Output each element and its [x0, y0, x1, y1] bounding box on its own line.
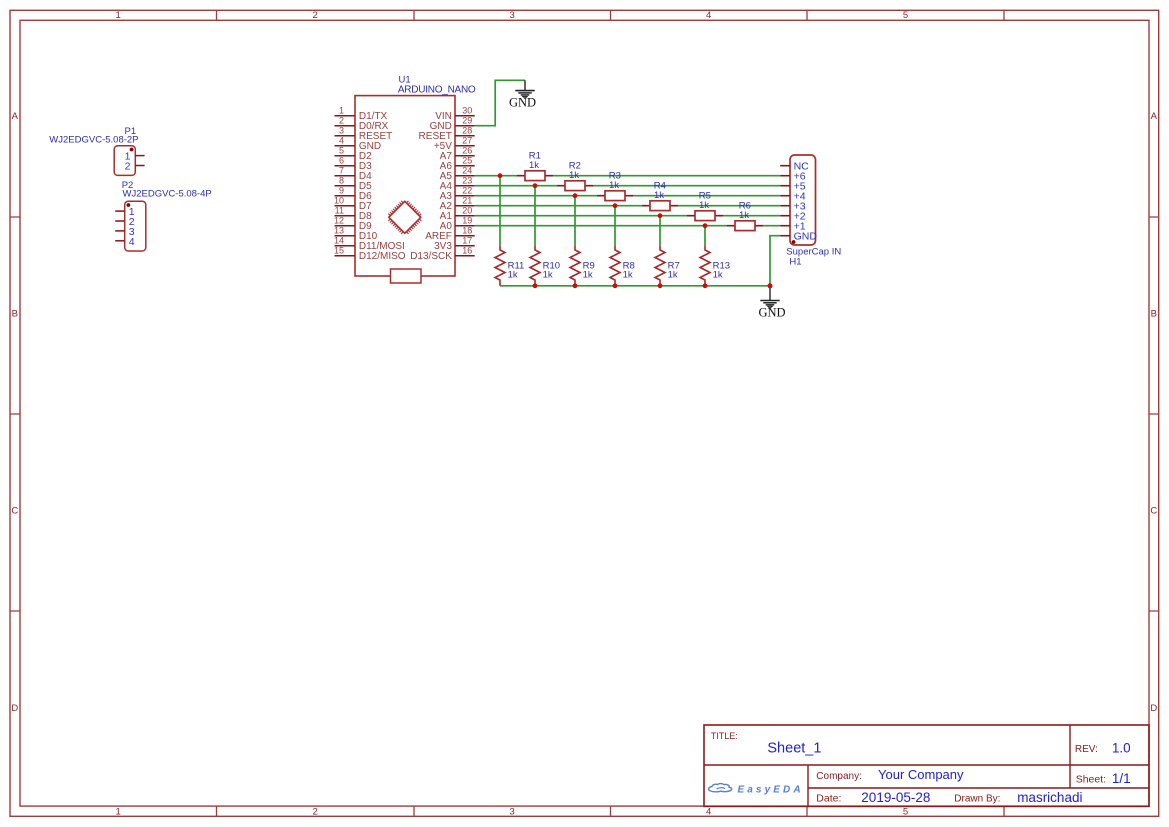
connector H1 pin +1 stub [780, 225, 790, 227]
wire bottom ground bus [500, 285, 770, 287]
svg-text:REV:: REV: [1075, 744, 1098, 755]
wire vertical branch at x=660 down to resistor [659, 216, 661, 246]
svg-text:14: 14 [334, 236, 344, 246]
svg-text:masrichadi: masrichadi [1017, 790, 1082, 805]
junction dot on ground bus at R8 [613, 283, 618, 288]
U1 pin 11 (D8) stub [335, 215, 356, 217]
svg-text:B: B [12, 309, 18, 320]
U1 pin 20 (A1) stub [455, 215, 475, 217]
resistor R4 body [650, 201, 670, 211]
svg-text:1: 1 [339, 106, 344, 116]
wire from R1 to H1 pin [553, 175, 780, 177]
U1 pin 3 (RESET) stub [335, 135, 356, 137]
connector P2 pin-1 marker dot [126, 203, 130, 207]
svg-text:Drawn By:: Drawn By: [954, 794, 1000, 805]
resistor R7 (vertical zigzag) [655, 246, 665, 286]
wire net A5 from U1 pin 24 to resistor R1 [475, 175, 517, 177]
svg-text:13: 13 [334, 226, 344, 236]
svg-text:2019-05-28: 2019-05-28 [861, 790, 930, 805]
svg-text:10: 10 [334, 196, 344, 206]
wire net A4 from U1 pin 23 to resistor R2 [475, 185, 557, 187]
wire vertical branch at x=615 down to resistor [614, 206, 616, 246]
title block row divider under Company [808, 787, 1149, 789]
junction dot on ground bus at R7 [658, 283, 663, 288]
svg-text:11: 11 [335, 206, 344, 216]
svg-text:15: 15 [334, 246, 344, 256]
svg-text:EasyEDA: EasyEDA [738, 784, 804, 795]
connector P2 pin 1 stub [115, 210, 125, 212]
resistor R6 body [735, 221, 755, 231]
wire from R2 to H1 pin [593, 185, 780, 187]
U1 pin 28 (RESET) stub [455, 135, 475, 137]
svg-text:19: 19 [462, 216, 472, 226]
U1 pin 26 (A7) stub [455, 155, 475, 157]
svg-text:1: 1 [116, 806, 121, 817]
svg-text:H1: H1 [789, 256, 801, 267]
U1 pin 10 (D7) stub [335, 205, 356, 207]
connector P1 pin 2 stub [135, 165, 144, 167]
junction dot on ground bus at R9 [573, 283, 578, 288]
resistor R5 leads [687, 215, 723, 217]
U1 pin 18 (AREF) stub [455, 235, 475, 237]
connector P2 pin 4 stub [115, 240, 125, 242]
connector H1 pin +6 stub [780, 175, 790, 177]
wire from H1 GND pin to ground bus [770, 236, 780, 286]
svg-text:4: 4 [129, 236, 135, 248]
svg-text:2: 2 [339, 116, 344, 126]
U1 pin 9 (D6) stub [335, 195, 356, 197]
U1 pin 6 (D3) stub [335, 165, 356, 167]
wire vertical branch at x=500 down to resistor [499, 176, 501, 246]
svg-text:8: 8 [339, 176, 344, 186]
svg-text:A: A [1151, 111, 1158, 122]
svg-text:28: 28 [462, 126, 472, 136]
svg-text:3: 3 [510, 806, 515, 817]
U1 pin 1 (D1/TX) stub [335, 115, 356, 117]
connector H1 pin-1 marker dot [792, 240, 796, 244]
U1 pin 23 (A4) stub [455, 185, 475, 187]
svg-text:1k: 1k [623, 270, 633, 281]
U1 body [355, 96, 455, 276]
junction dot on ground bus at R10 [533, 283, 538, 288]
svg-text:4: 4 [339, 136, 344, 146]
wire net A0 from U1 pin 19 to resistor R6 [475, 225, 727, 227]
connector H1 pin +3 stub [780, 205, 790, 207]
wire net A3 from U1 pin 22 to resistor R3 [475, 195, 597, 197]
svg-text:2: 2 [313, 806, 318, 817]
svg-text:2: 2 [125, 161, 131, 173]
wire from R5 to H1 pin [723, 215, 780, 217]
U1 pin 12 (D9) stub [335, 225, 356, 227]
svg-text:Your Company: Your Company [878, 767, 964, 782]
svg-text:21: 21 [462, 196, 472, 206]
svg-text:A: A [12, 111, 19, 122]
svg-text:5: 5 [903, 10, 908, 21]
svg-text:C: C [1150, 506, 1157, 517]
U1 pin 2 (D0/RX) stub [335, 125, 356, 127]
resistor R9 (vertical zigzag) [570, 246, 580, 286]
wire from R4 to H1 pin [678, 205, 780, 207]
svg-text:12: 12 [334, 216, 344, 226]
junction dot on wire A2 [613, 203, 618, 208]
title block column divider logo cell [807, 765, 809, 806]
svg-text:GND: GND [509, 96, 536, 110]
junction dot on wire A0 [703, 223, 708, 228]
junction dot on wire A5 [498, 173, 503, 178]
resistor R5 body [695, 211, 715, 221]
resistor R1 body [525, 171, 545, 181]
svg-text:16: 16 [462, 246, 472, 256]
svg-text:WJ2EDGVC-5.08-4P: WJ2EDGVC-5.08-4P [123, 189, 212, 200]
U1 pin 22 (A3) stub [455, 195, 475, 197]
svg-text:9: 9 [339, 186, 344, 196]
resistor R4 leads [642, 205, 678, 207]
U1 pin 29 (GND) stub [455, 125, 475, 127]
connector P2 pin 3 stub [115, 230, 125, 232]
U1 chip glyph (diamond IC drawing inside body) [388, 201, 421, 234]
title block column divider REV cell [1069, 725, 1071, 788]
svg-text:17: 17 [462, 236, 472, 246]
svg-text:27: 27 [462, 136, 472, 146]
svg-text:5: 5 [339, 146, 344, 156]
svg-text:1k: 1k [739, 210, 749, 221]
svg-text:ARDUINO_NANO: ARDUINO_NANO [398, 85, 476, 96]
U1 pin 19 (A0) stub [455, 225, 475, 227]
svg-text:B: B [1151, 309, 1157, 320]
connector P1 body [114, 146, 135, 176]
svg-text:26: 26 [462, 146, 472, 156]
svg-text:D: D [1150, 703, 1157, 714]
ruler column tick marks bottom [217, 806, 1005, 816]
svg-text:1k: 1k [543, 270, 553, 281]
svg-text:1k: 1k [609, 180, 619, 191]
U1 pin 4 (GND) stub [335, 145, 356, 147]
junction dot ground bus right end [768, 283, 773, 288]
ground symbol bottom right [760, 288, 779, 308]
wire vertical branch at x=535 down to resistor [534, 186, 536, 246]
svg-text:1k: 1k [654, 190, 664, 201]
svg-text:TITLE:: TITLE: [711, 731, 738, 741]
svg-text:1: 1 [116, 10, 121, 21]
U1 pin 25 (A6) stub [455, 165, 475, 167]
svg-text:30: 30 [462, 106, 472, 116]
U1 pin 7 (D4) stub [335, 175, 356, 177]
svg-text:18: 18 [462, 226, 472, 236]
svg-text:24: 24 [462, 166, 472, 176]
U1 pin 24 (A5) stub [455, 175, 475, 177]
svg-text:5: 5 [903, 806, 908, 817]
resistor R8 (vertical zigzag) [610, 246, 620, 286]
wire vertical branch at x=575 down to resistor [574, 196, 576, 246]
U1 pin 8 (D5) stub [335, 185, 356, 187]
connector H1 pin GND stub [780, 235, 790, 237]
resistor R6 leads [727, 225, 763, 227]
title block outer border [704, 725, 1149, 806]
title block row divider under TITLE [704, 764, 1149, 766]
connector P2 body [125, 201, 146, 251]
wire from R3 to H1 pin [633, 195, 780, 197]
svg-text:2: 2 [313, 10, 318, 21]
U1 pin 27 (+5V) stub [455, 145, 475, 147]
svg-text:Sheet:: Sheet: [1076, 774, 1106, 786]
svg-text:Date:: Date: [816, 793, 841, 805]
svg-text:1k: 1k [529, 160, 539, 171]
U1 pin 15 (D12/MISO) stub [335, 255, 356, 257]
resistor R11 (vertical zigzag) [495, 246, 505, 286]
resistor R2 body [565, 181, 585, 191]
junction dot on wire A3 [573, 193, 578, 198]
svg-text:D: D [11, 703, 18, 714]
resistor R3 leads [597, 195, 633, 197]
connector H1 body [790, 155, 816, 245]
connector P1 pin-1 marker dot [130, 148, 134, 152]
svg-text:Sheet_1: Sheet_1 [767, 741, 821, 757]
resistor R13 (vertical zigzag) [700, 246, 710, 286]
svg-text:1.0: 1.0 [1112, 740, 1131, 755]
junction dot on wire A4 [533, 183, 538, 188]
U1 pin 17 (3V3) stub [455, 245, 475, 247]
junction dot on ground bus at R13 [703, 283, 708, 288]
ruler column tick marks top [217, 10, 1005, 20]
U1 pin 5 (D2) stub [335, 155, 356, 157]
svg-text:3: 3 [510, 10, 515, 21]
svg-text:1k: 1k [508, 270, 518, 281]
svg-text:22: 22 [462, 186, 472, 196]
connector H1 pin +2 stub [780, 215, 790, 217]
U1 pin 14 (D11/MOSI) stub [335, 245, 356, 247]
U1 pin 21 (A2) stub [455, 205, 475, 207]
svg-text:29: 29 [462, 116, 472, 126]
connector P2 pin 2 stub [115, 220, 125, 222]
svg-text:20: 20 [462, 206, 472, 216]
svg-text:1k: 1k [668, 270, 678, 281]
U1 USB connector rectangle at bottom edge [391, 269, 422, 283]
ground symbol top (GND) [515, 80, 534, 98]
connector H1 pin +4 stub [780, 195, 790, 197]
junction dot on wire A1 [658, 213, 663, 218]
ruler row tick marks right [1149, 217, 1159, 611]
svg-text:4: 4 [706, 10, 711, 21]
svg-text:GND: GND [794, 231, 818, 243]
wire net A1 from U1 pin 20 to resistor R5 [475, 215, 687, 217]
resistor R2 leads [557, 185, 593, 187]
U1 pin 16 (D13/SCK) stub [455, 255, 475, 257]
ruler row tick marks left [10, 217, 20, 611]
svg-text:D12/MISO: D12/MISO [359, 251, 406, 262]
resistor R10 (vertical zigzag) [530, 246, 540, 286]
connector H1 pin +5 stub [780, 185, 790, 187]
svg-text:1k: 1k [713, 270, 723, 281]
svg-text:6: 6 [339, 156, 344, 166]
svg-text:WJ2EDGVC-5.08-2P: WJ2EDGVC-5.08-2P [49, 135, 138, 146]
resistor R1 leads [517, 175, 553, 177]
EasyEDA logo cloud glyph [709, 784, 732, 792]
svg-text:D13/SCK: D13/SCK [410, 251, 452, 262]
wire vertical branch at x=705 down to resistor [704, 226, 706, 246]
U1 pin 30 (VIN) stub [455, 115, 475, 117]
svg-text:C: C [11, 506, 18, 517]
svg-text:3: 3 [339, 126, 344, 136]
connector H1 pin NC stub [780, 165, 790, 167]
svg-text:1k: 1k [569, 170, 579, 181]
svg-text:7: 7 [339, 166, 344, 176]
svg-text:1/1: 1/1 [1112, 771, 1131, 786]
svg-text:23: 23 [462, 176, 472, 186]
U1 pin 13 (D10) stub [335, 235, 356, 237]
svg-text:4: 4 [706, 806, 711, 817]
wire from U1 pin 29 GND to top GND symbol [475, 80, 525, 125]
wire from R6 to H1 pin [763, 225, 780, 227]
wire net A2 from U1 pin 21 to resistor R4 [475, 205, 642, 207]
connector P1 pin 1 stub [135, 155, 144, 157]
svg-text:GND: GND [758, 305, 785, 319]
svg-text:1k: 1k [583, 270, 593, 281]
svg-text:1k: 1k [699, 200, 709, 211]
svg-text:25: 25 [462, 156, 472, 166]
svg-text:Company:: Company: [816, 771, 862, 782]
resistor R3 body [605, 191, 625, 201]
